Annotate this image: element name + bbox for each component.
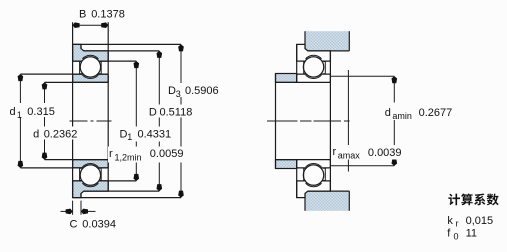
- bearing outline (unfilled) upper outer ring: [297, 44, 331, 61]
- balls: [80, 57, 100, 77]
- raceway groove arcs: [82, 55, 98, 59]
- dimension D3: [180, 44, 182, 197]
- dimension d1: [19, 74, 21, 168]
- svg-text:D: D: [168, 85, 176, 97]
- lower outer ring: [297, 181, 331, 198]
- raceway groove bracket marks: [79, 62, 81, 74]
- shaft abutment shoulder, upper: [276, 74, 297, 83]
- dimension B width: [73, 24, 109, 26]
- axis centerline: [70, 120, 88, 122]
- axis centerline right: [267, 120, 298, 122]
- svg-text:C: C: [70, 219, 78, 231]
- svg-text:amin: amin: [392, 111, 412, 121]
- housing edge extension line: [347, 70, 349, 172]
- balls right: [303, 57, 323, 77]
- shaft surface lines: [276, 81, 331, 83]
- label r12min 0.0059: [108, 147, 184, 163]
- svg-text:r: r: [333, 146, 337, 158]
- raceway groove arcs right: [306, 55, 322, 59]
- svg-text:3: 3: [176, 89, 181, 99]
- dimension C flange width: [72, 201, 74, 215]
- svg-text:0.0039: 0.0039: [368, 147, 402, 159]
- svg-text:r: r: [109, 148, 113, 160]
- dimension D1: [135, 61, 137, 181]
- svg-text:d: d: [33, 128, 39, 140]
- svg-text:1: 1: [17, 110, 22, 120]
- label d1 0.315: [9, 103, 57, 117]
- svg-text:D: D: [149, 106, 157, 118]
- svg-text:0.315: 0.315: [27, 106, 55, 118]
- shaft abutment shoulder, lower: [276, 160, 297, 169]
- svg-text:0.1378: 0.1378: [91, 9, 125, 21]
- inner ring, upper half: [73, 74, 109, 82]
- svg-text:D: D: [120, 128, 128, 140]
- outer ring with flange, lower half: [73, 181, 109, 198]
- svg-text:11: 11: [466, 227, 477, 239]
- svg-text:0.2362: 0.2362: [44, 128, 78, 140]
- inner ring lower: [297, 160, 331, 168]
- svg-text:0.4331: 0.4331: [138, 128, 172, 140]
- dimension D: [158, 51, 160, 191]
- inner ring upper: [297, 74, 331, 82]
- svg-text:0.2677: 0.2677: [419, 107, 453, 119]
- inner ring, lower half: [73, 160, 109, 168]
- label d 0.2362: [32, 127, 79, 140]
- svg-text:0.5906: 0.5906: [185, 85, 219, 97]
- outer ring with flange, upper half: [73, 44, 109, 61]
- svg-text:amax: amax: [338, 151, 361, 161]
- svg-text:d: d: [10, 106, 16, 118]
- svg-text:B: B: [79, 9, 86, 21]
- svg-text:d: d: [385, 107, 391, 119]
- label damin 0.2677: [384, 103, 455, 121]
- raceway bracket marks right: [303, 62, 305, 74]
- dimension damin: [330, 75, 394, 77]
- housing edges: [304, 31, 306, 51]
- svg-text:0: 0: [454, 231, 459, 241]
- svg-text:1,2min: 1,2min: [115, 152, 142, 162]
- dimension d: [44, 82, 46, 159]
- svg-text:0.0394: 0.0394: [82, 219, 116, 231]
- mounting view: housing blocks: [305, 31, 349, 51]
- bearing face lines: [296, 44, 298, 82]
- label D3 0.5906: [167, 83, 220, 97]
- label ramax 0.0039: [332, 145, 403, 160]
- bearing face vertical lines: [72, 22, 74, 197]
- svg-text:0.5118: 0.5118: [160, 106, 193, 118]
- svg-text:r: r: [456, 219, 459, 229]
- label D1 0.4331: [119, 127, 174, 142]
- label D 0.5118: [148, 105, 194, 118]
- svg-text:1: 1: [127, 132, 132, 142]
- shaft end line: [275, 74, 277, 169]
- svg-text:k: k: [447, 215, 453, 227]
- leader/edge horizontal lines: [73, 43, 181, 45]
- calculation factors header (Chinese): [448, 194, 460, 206]
- flange right face edges: [80, 44, 82, 48]
- svg-text:0.0059: 0.0059: [150, 148, 184, 160]
- svg-text:0,015: 0,015: [466, 215, 494, 227]
